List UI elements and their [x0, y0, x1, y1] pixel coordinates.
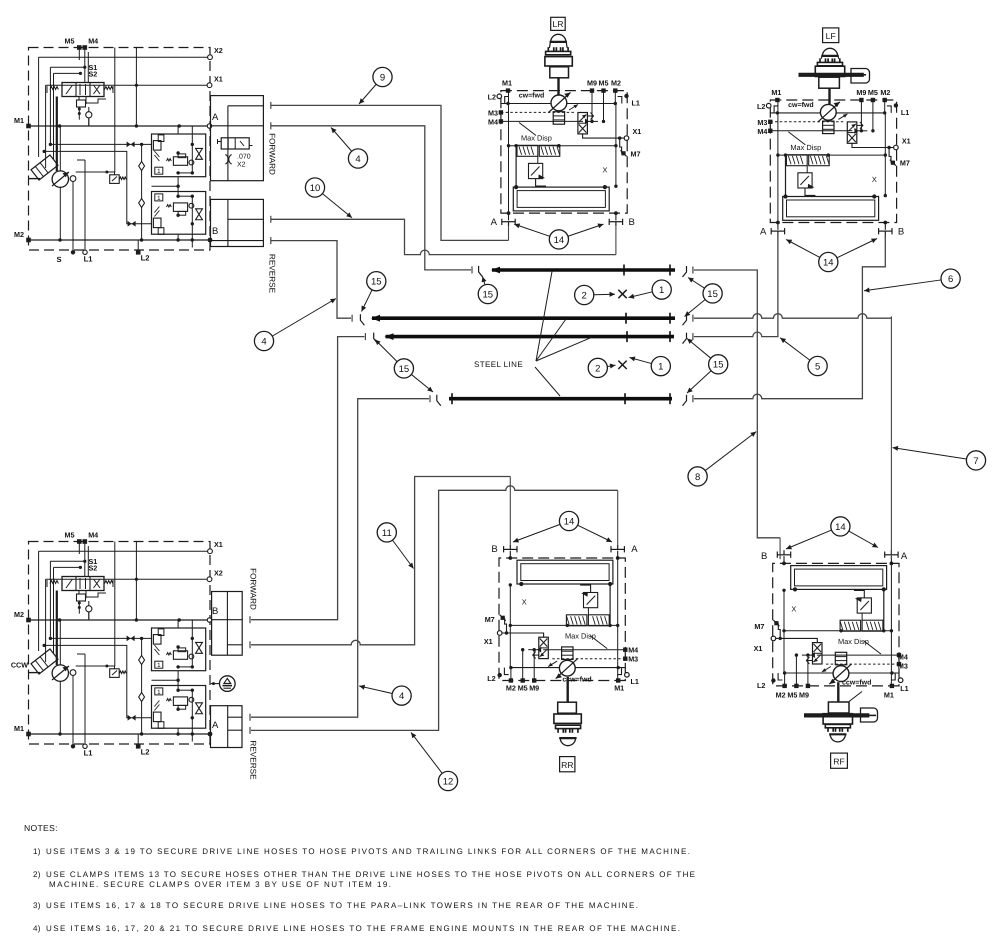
svg-text:RF: RF [833, 757, 844, 767]
wire pilot columns [89, 542, 137, 667]
orifice .070 X2 component (P1 FORWARD box) [218, 138, 253, 169]
wire pilot feed lines [50, 561, 84, 665]
svg-text:M4: M4 [488, 117, 498, 126]
svg-text:M5: M5 [65, 37, 75, 46]
svg-text:1: 1 [157, 689, 161, 696]
svg-text:M7: M7 [631, 149, 641, 158]
directional valve (pump control) [47, 577, 113, 591]
svg-text:REVERSE: REVERSE [249, 740, 258, 780]
pump P2 CCW label [11, 661, 28, 670]
wheel hub LR [545, 34, 572, 94]
svg-text:M9: M9 [529, 683, 539, 692]
svg-text:M1: M1 [771, 88, 781, 97]
svg-text:M2: M2 [776, 690, 786, 699]
svg-text:L1: L1 [84, 749, 94, 758]
svg-text:M7: M7 [900, 159, 910, 168]
svg-text:A: A [760, 226, 767, 237]
pump port M5 [65, 37, 82, 50]
svg-text:X: X [522, 598, 527, 607]
wheel hub LF [799, 48, 870, 104]
port X1 [46, 75, 223, 169]
svg-text:4): 4) [33, 924, 41, 933]
balloon item 1 [630, 357, 671, 376]
tag LF [823, 28, 839, 43]
port bracket stems LR [509, 226, 616, 254]
svg-text:L1: L1 [632, 99, 640, 108]
hose P2 REVERSE-lower to RR port A (item 12) [251, 486, 618, 731]
directional valve (pump control) [47, 83, 113, 97]
balloon item 14 [513, 511, 612, 542]
svg-text:A: A [212, 112, 219, 123]
wire pilot columns [89, 48, 137, 173]
pilot valve + orifice [77, 97, 107, 127]
rail M2 / node B [14, 606, 218, 622]
variable pump rotary group [29, 620, 86, 746]
svg-text:A: A [631, 544, 638, 555]
svg-text:X2: X2 [214, 569, 223, 578]
motor LR labels [488, 79, 642, 229]
wire M4 stem [79, 542, 88, 578]
check valves column [139, 144, 145, 240]
balloon item 4 [254, 299, 336, 351]
svg-text:X: X [603, 166, 608, 175]
notes text block [24, 823, 695, 933]
steel line 4 (bottom) [449, 393, 672, 404]
svg-text:X1: X1 [902, 136, 911, 145]
hose steel line 3 to P2 FORWARD-upper [251, 337, 364, 620]
svg-text:M5: M5 [787, 690, 797, 699]
svg-text:USE ITEMS 3 & 19 TO SECURE DRI: USE ITEMS 3 & 19 TO SECURE DRIVE LINE HO… [46, 847, 690, 856]
wire to lower cartridge [43, 644, 152, 721]
port X2 [39, 46, 223, 157]
svg-text:5: 5 [815, 361, 820, 372]
cartridge valve block upper (item 1) [152, 620, 206, 671]
svg-text:15: 15 [707, 289, 718, 300]
pump P1 FORWARD port box [211, 96, 264, 181]
port bracket stems RF [780, 316, 891, 559]
svg-text:USE CLAMPS ITEMS 13 TO SECURE: USE CLAMPS ITEMS 13 TO SECURE HOSES OTHE… [46, 870, 695, 879]
pump P1 (front tandem pump) enclosure [29, 48, 211, 251]
balloon item 12 [411, 732, 458, 790]
svg-text:1: 1 [659, 285, 664, 296]
steel line 1 (top) [491, 265, 675, 276]
svg-text:M3: M3 [757, 118, 767, 127]
motor LF labels [757, 88, 911, 238]
wire pilot feed lines [50, 67, 84, 171]
svg-text:4: 4 [399, 691, 404, 702]
svg-text:1: 1 [157, 168, 161, 175]
svg-text:L2: L2 [141, 748, 150, 757]
svg-text:12: 12 [443, 776, 454, 787]
fitting line1 left [472, 266, 483, 277]
pilot valve + orifice [77, 591, 107, 621]
svg-text:4: 4 [355, 154, 360, 165]
hose steel line 3 to LF port A (item 5) [694, 236, 778, 337]
label FORWARD (P1) [268, 133, 277, 175]
svg-text:15: 15 [713, 360, 724, 371]
svg-text:X: X [872, 175, 877, 184]
hose P1 REVERSE-upper to LR port B (item 10) [271, 219, 616, 254]
svg-text:X1: X1 [214, 75, 223, 84]
svg-text:B: B [629, 217, 635, 228]
svg-text:M4: M4 [88, 531, 98, 540]
fitting line3 left [365, 333, 377, 344]
motor RR labels [484, 544, 639, 692]
svg-text:L2: L2 [757, 102, 765, 111]
svg-text:M9: M9 [587, 79, 597, 88]
svg-text:X2: X2 [214, 46, 223, 55]
svg-text:M1: M1 [14, 724, 24, 733]
svg-text:M7: M7 [754, 622, 764, 631]
svg-text:L2: L2 [141, 254, 150, 263]
svg-text:X1: X1 [633, 127, 642, 136]
hose P2 REVERSE-upper to steel line 4 [251, 399, 429, 718]
pump port M5 [65, 531, 82, 544]
balloon item 8 [688, 432, 756, 486]
relief valve [76, 171, 127, 184]
servo piston (tilted) [31, 649, 58, 674]
cartridge valve block lower (item 1) [152, 192, 206, 248]
svg-text:Max Disp: Max Disp [838, 637, 869, 646]
svg-text:L1: L1 [901, 108, 909, 117]
svg-text:X: X [791, 605, 796, 614]
label REVERSE (P1) [268, 254, 277, 294]
steel line 2 [371, 313, 675, 324]
svg-text:B: B [212, 226, 218, 237]
balloon item 5 [780, 338, 827, 376]
pump P1 REVERSE port box [211, 199, 264, 246]
svg-text:9: 9 [380, 72, 385, 83]
svg-text:M2: M2 [506, 683, 516, 692]
balloon item 14 [514, 224, 603, 249]
balloon item 6 [864, 269, 960, 293]
svg-text:USE ITEMS 16, 17, 20 & 21 TO S: USE ITEMS 16, 17, 20 & 21 TO SECURE DRIV… [46, 924, 680, 933]
hose P1 port A to steel line 1 [271, 126, 471, 270]
motor LR assembly [497, 88, 629, 226]
svg-text:8: 8 [695, 472, 700, 483]
svg-text:M4: M4 [757, 127, 767, 136]
fitting line2 right [683, 314, 693, 325]
tag RF [831, 753, 848, 768]
port X2 [46, 569, 223, 663]
svg-text:cw=fwd: cw=fwd [519, 92, 544, 100]
svg-text:1: 1 [658, 362, 663, 373]
tag LR [551, 17, 566, 30]
svg-text:.070: .070 [237, 154, 251, 161]
pump P2 (rear tandem pump) enclosure [29, 542, 211, 745]
rail M1 / node A [14, 720, 219, 736]
svg-text:NOTES:: NOTES: [24, 823, 58, 833]
hose steel line 4 to LF port B (item 6) [694, 236, 885, 399]
wire to upper cartridge [49, 636, 152, 642]
balloon item 7 [893, 446, 986, 470]
svg-text:M4: M4 [898, 653, 908, 662]
svg-text:X1: X1 [484, 637, 493, 646]
svg-text:FORWARD: FORWARD [268, 133, 277, 175]
svg-text:M1: M1 [502, 79, 512, 88]
svg-text:M5: M5 [518, 683, 528, 692]
port X1 [39, 540, 223, 651]
balloon item 11 [377, 523, 413, 569]
pump P2 REVERSE port box [211, 706, 243, 748]
svg-text:10: 10 [310, 183, 321, 194]
steel line 3 [385, 331, 675, 342]
port bracket stems RR [510, 477, 617, 545]
svg-text:M4: M4 [88, 37, 98, 46]
port bracket stems LF [778, 236, 885, 238]
svg-text:FORWARD: FORWARD [249, 568, 258, 610]
wire between cartridges [152, 126, 180, 240]
balloon item 2 [575, 285, 615, 304]
fitting line2 left [352, 314, 364, 325]
motor RF labels [754, 551, 909, 699]
balloon item 15 [375, 340, 433, 393]
fitting line4 right [683, 395, 693, 406]
svg-text:B: B [212, 606, 218, 617]
svg-text:2): 2) [33, 870, 41, 879]
variable pump rotary group [29, 126, 86, 252]
pump drain ports S/L1/L2 [71, 734, 150, 758]
solenoid S1/S2 labels [79, 63, 97, 79]
hose P1 FORWARD-upper to LR port A (item 9) [271, 105, 509, 240]
hose steel line 2 to RF port A (item 7) [694, 314, 892, 319]
svg-text:B: B [898, 226, 904, 237]
relief valve [76, 665, 127, 678]
svg-text:M2: M2 [14, 230, 24, 239]
balloon item 4 [359, 685, 411, 706]
rail M1 / node A [14, 112, 219, 128]
motor LF assembly [766, 98, 898, 236]
servo piston (tilted) [31, 155, 58, 180]
label REVERSE (P2) [249, 740, 258, 780]
svg-text:STEEL LINE: STEEL LINE [474, 360, 523, 369]
svg-text:X2: X2 [237, 162, 246, 169]
balloon item 4 [331, 128, 368, 169]
svg-text:M1: M1 [884, 690, 894, 699]
svg-text:14: 14 [564, 516, 575, 527]
motor RF assembly [771, 550, 903, 688]
svg-text:7: 7 [973, 456, 978, 467]
svg-text:M2: M2 [14, 610, 24, 619]
svg-text:M3: M3 [898, 662, 908, 671]
check valves column [139, 638, 145, 734]
svg-text:Max Disp: Max Disp [565, 632, 596, 641]
svg-text:M7: M7 [485, 615, 495, 624]
svg-text:14: 14 [835, 522, 846, 533]
svg-text:S2: S2 [89, 564, 98, 573]
motor RR assembly [497, 545, 629, 683]
pump P2 FORWARD port box [212, 592, 243, 656]
svg-text:1): 1) [33, 847, 41, 856]
svg-text:REVERSE: REVERSE [268, 254, 277, 294]
svg-text:M2: M2 [611, 79, 621, 88]
fitting line1 right [683, 266, 693, 277]
svg-text:X1: X1 [214, 540, 223, 549]
hose P2 FORWARD-lower to RR port B (item 11) [251, 477, 510, 645]
balloon item 2 [588, 358, 615, 377]
balloon item 15 [685, 278, 723, 317]
pump port M4 [83, 37, 99, 50]
svg-text:2: 2 [595, 363, 600, 374]
svg-text:M5: M5 [868, 88, 878, 97]
svg-text:B: B [491, 544, 497, 555]
svg-text:14: 14 [823, 257, 834, 268]
hose steel line 1 to RF port B [694, 270, 780, 538]
balloon item 14 [786, 517, 878, 549]
svg-text:S: S [56, 255, 61, 264]
svg-text:L1: L1 [631, 677, 639, 686]
svg-text:S2: S2 [89, 70, 98, 79]
wheel hub RR [554, 677, 581, 746]
hose stubs P2 [249, 616, 251, 734]
svg-text:X1: X1 [754, 644, 763, 653]
pump port M4 [83, 531, 99, 544]
svg-text:4: 4 [261, 336, 266, 347]
balloon item 10 [305, 178, 352, 218]
svg-text:1: 1 [157, 662, 161, 669]
pump P2 case gauge symbol [211, 676, 235, 692]
svg-text:L2: L2 [757, 681, 765, 690]
label STEEL LINE with leaders [474, 272, 592, 397]
svg-text:M2: M2 [880, 88, 890, 97]
svg-text:M1: M1 [14, 116, 24, 125]
balloon item 9 [359, 67, 392, 104]
svg-text:6: 6 [948, 274, 953, 285]
balloon item 14 [786, 239, 877, 272]
rail M2 / node B [14, 226, 218, 242]
svg-text:M9: M9 [799, 690, 809, 699]
svg-text:2: 2 [582, 290, 587, 301]
label FORWARD (P2) [249, 568, 258, 610]
svg-text:11: 11 [382, 528, 392, 539]
tag RR [560, 757, 575, 772]
svg-text:M4: M4 [628, 646, 638, 655]
cartridge valve block lower (item 1) [152, 686, 206, 742]
svg-text:M5: M5 [65, 531, 75, 540]
svg-text:CCW: CCW [11, 661, 28, 670]
clamp symbol row 1 (items 2 and 1) [618, 290, 626, 298]
wire to upper cartridge [49, 142, 152, 148]
svg-text:L2: L2 [487, 674, 495, 683]
svg-text:MACHINE. SECURE CLAMPS OVER: MACHINE. SECURE CLAMPS OVER ITEM 3 BY US… [49, 880, 391, 889]
pump drain ports S/L1/L2 [56, 240, 149, 264]
svg-text:LR: LR [553, 19, 564, 29]
balloon item 15 [478, 277, 497, 304]
svg-text:Max Disp: Max Disp [521, 134, 552, 143]
wire between cartridges [152, 620, 180, 734]
svg-text:14: 14 [554, 235, 565, 246]
hose P1 port B to steel line 2 [271, 241, 351, 319]
wire M4 stem [79, 48, 88, 84]
svg-text:RR: RR [561, 760, 573, 770]
svg-text:A: A [491, 217, 498, 228]
svg-text:L2: L2 [488, 93, 496, 102]
svg-text:M1: M1 [614, 683, 624, 692]
svg-text:A: A [901, 551, 908, 562]
svg-text:L1: L1 [900, 684, 908, 693]
svg-text:M9: M9 [856, 88, 866, 97]
svg-text:cw=fwd: cw=fwd [788, 101, 813, 109]
svg-text:A: A [212, 720, 219, 731]
balloon item 15 [362, 272, 386, 312]
wire to lower cartridge [43, 150, 152, 227]
solenoid S1/S2 labels [79, 557, 97, 573]
svg-text:M5: M5 [599, 79, 609, 88]
svg-text:3): 3) [33, 901, 41, 910]
wheel hub RF [804, 682, 877, 742]
hose stubs P1 [270, 102, 272, 244]
balloon item 1 [629, 280, 672, 299]
svg-text:USE ITEMS 16, 17 & 18 TO SECUR: USE ITEMS 16, 17 & 18 TO SECURE DRIVE LI… [46, 901, 638, 910]
svg-text:15: 15 [371, 277, 382, 288]
svg-text:ccw=fwd: ccw=fwd [842, 679, 871, 687]
clamp symbol row 2 (items 2 and 1) [618, 361, 626, 369]
fitting line4 left [430, 395, 441, 406]
svg-text:L1: L1 [84, 255, 94, 264]
svg-text:15: 15 [483, 289, 494, 300]
svg-text:15: 15 [399, 364, 410, 375]
fitting line3 right [683, 333, 693, 344]
cartridge valve block upper (item 1) [152, 126, 206, 177]
svg-text:Max Disp: Max Disp [790, 143, 821, 152]
balloon item 15 [687, 339, 728, 394]
svg-text:M3: M3 [488, 108, 498, 117]
svg-text:B: B [761, 551, 767, 562]
svg-text:M3: M3 [628, 655, 638, 664]
svg-text:LF: LF [826, 31, 836, 41]
svg-text:1: 1 [157, 195, 161, 202]
